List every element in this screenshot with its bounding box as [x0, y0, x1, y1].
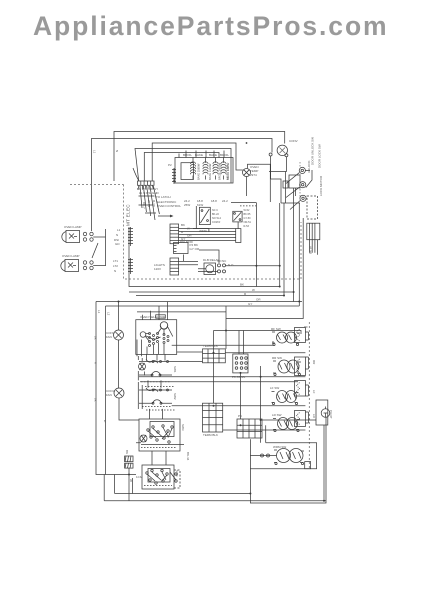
dashed stub: [240, 205, 256, 207]
DLB relay: [204, 263, 216, 275]
svg-text:BROIL: BROIL: [183, 153, 192, 157]
svg-text:L1: L1: [117, 228, 121, 232]
watermark title: [33, 11, 389, 42]
wire top bus L5: [144, 153, 219, 182]
door interlock switch B: [233, 211, 242, 222]
svg-text:FAN: FAN: [106, 335, 112, 339]
wire surface feeds 4: [140, 381, 298, 383]
wire mid bus 1: [129, 227, 280, 287]
svg-text:LF SW: LF SW: [270, 386, 279, 390]
wire top bus L1: [114, 132, 285, 182]
svg-text:GD: GD: [115, 242, 120, 246]
fan terminal left: [269, 153, 272, 156]
relay contact b: [223, 264, 226, 267]
convection fan motor: [277, 145, 287, 155]
svg-text:SW2: SW2: [173, 393, 177, 400]
svg-text:BROIL 1320W: BROIL 1320W: [226, 162, 230, 180]
svg-text:LT2: LT2: [113, 264, 118, 268]
harness bundle texture: [140, 186, 159, 220]
svg-text:OVEN LAMP: OVEN LAMP: [64, 225, 82, 229]
wire J1 pin1: [179, 228, 236, 230]
svg-text:W: W: [187, 227, 190, 231]
svg-text:NC C: NC C: [212, 209, 218, 212]
wire surface feeds 5: [172, 405, 306, 407]
wire J4 pin1: [179, 260, 198, 262]
harness stack: [172, 168, 176, 184]
svg-text:P2: P2: [168, 163, 172, 167]
svg-text:N.O.: N.O.: [228, 263, 234, 267]
svg-text:BROIL: BROIL: [220, 153, 229, 157]
svg-text:L1: L1: [93, 150, 97, 154]
wire sensor down: [246, 177, 248, 197]
svg-text:NC: NC: [222, 259, 227, 263]
svg-text:GY-50: GY-50: [244, 217, 252, 220]
svg-text:LT1: LT1: [113, 259, 118, 263]
wire left rail 1: [96, 302, 136, 475]
wire mid drop H: [225, 306, 227, 349]
selector top connector: [156, 315, 166, 318]
wire mid drop F: [240, 373, 242, 419]
wire intlk B drop: [237, 222, 239, 229]
broil motor: [114, 388, 124, 398]
wire surface feeds 2: [139, 376, 305, 378]
svg-text:BK-7: BK-7: [142, 202, 146, 209]
svg-text:GY: GY: [248, 302, 252, 306]
wire door feed2: [285, 172, 287, 204]
wire bottom rail 1: [115, 493, 251, 495]
wire intlk stub: [195, 206, 197, 229]
selector risers: [147, 354, 166, 360]
svg-text:SW3: SW3: [181, 424, 185, 431]
wire J1 pin4: [179, 237, 236, 239]
wire surface top loop: [214, 331, 302, 335]
svg-text:BK: BK: [181, 223, 185, 227]
wire mid bus 2: [129, 291, 294, 293]
switch bank 4: [142, 465, 174, 489]
bake element coil 2: [203, 158, 208, 180]
svg-text:PILOT: PILOT: [329, 410, 333, 419]
wire vertical drop B: [279, 203, 281, 287]
svg-text:BROIL 3400W: BROIL 3400W: [218, 162, 222, 180]
svg-text:BK: BK: [240, 283, 244, 287]
door switch body: [289, 175, 300, 188]
svg-text:BK-55: BK-55: [244, 213, 252, 216]
warmer pilot lamp: [321, 409, 330, 418]
svg-text:W: W: [103, 420, 107, 423]
svg-text:OR-51: OR-51: [244, 221, 252, 224]
relay contact d: [223, 270, 226, 273]
dsi wire: [183, 255, 185, 262]
svg-text:RF SW: RF SW: [271, 327, 281, 331]
door unlock switch contact 2: [300, 182, 306, 188]
broil element box: [175, 158, 233, 184]
element feed stubs: [179, 151, 224, 158]
wire bottom rail 2: [104, 500, 326, 502]
svg-text:P4: P4: [238, 414, 242, 418]
svg-text:BK: BK: [94, 336, 98, 340]
relay contact a: [218, 264, 221, 267]
svg-text:N: N: [115, 150, 119, 152]
wire bottom right box: [250, 417, 326, 503]
broil element coil 4: [221, 158, 226, 180]
s5 terminals: [261, 454, 264, 457]
svg-text:WRM SW: WRM SW: [273, 445, 286, 449]
wire vertical drop C: [283, 203, 285, 296]
svg-text:N: N: [116, 233, 118, 237]
surface switch 1: [272, 332, 300, 346]
wire light1 to board: [93, 236, 105, 238]
svg-text:UNLOCK: UNLOCK: [307, 160, 311, 173]
svg-text:BAKE: BAKE: [195, 153, 203, 157]
wire conn a drop: [128, 468, 130, 501]
svg-text:OVEN CONTROL: OVEN CONTROL: [157, 204, 181, 208]
svg-text:120V: 120V: [154, 267, 161, 271]
wire top bus L3: [152, 143, 243, 181]
svg-text:SW4: SW4: [175, 470, 179, 477]
wire relay feed: [198, 269, 218, 272]
svg-text:LR SW: LR SW: [272, 413, 282, 417]
wire latch leads: [310, 240, 318, 255]
selector feeds top: [143, 302, 168, 320]
wire pilot drop: [323, 425, 325, 501]
label intlk A codes: [199, 209, 222, 233]
oven light 2 terminals: [83, 261, 93, 270]
svg-text:N: N: [114, 269, 116, 273]
oven temp sensor: [243, 169, 251, 177]
wire surface feeds 8: [262, 419, 316, 421]
control dashed boundary: [70, 185, 301, 280]
wire selector feed top: [137, 311, 226, 313]
door unlock switch contact 3: [300, 195, 306, 201]
bank2 to bank3 risers: [150, 409, 163, 419]
wire left rail 2: [105, 306, 107, 475]
svg-text:R: R: [94, 362, 98, 364]
wire door base: [281, 202, 300, 204]
wire mid drop I: [260, 366, 262, 443]
svg-text:24.2: 24.2: [222, 199, 228, 203]
svg-text:1CM: 1CM: [136, 475, 143, 479]
svg-text:LR: LR: [312, 414, 316, 419]
wire J1 pin3: [179, 234, 236, 236]
svg-text:P3 CONN: P3 CONN: [232, 375, 245, 379]
lower connector a: [125, 456, 133, 468]
svg-text:OR: OR: [187, 234, 192, 238]
surface element 3: [295, 381, 306, 397]
wire top bus L2: [92, 139, 273, 232]
surface switch 5: [274, 449, 304, 465]
wire bottom riser b: [114, 475, 116, 494]
door unlock switch contact 1: [299, 167, 305, 173]
bundle ties: [139, 196, 157, 213]
wire surface feeds 7: [250, 443, 316, 469]
svg-text:2974: 2974: [250, 173, 257, 177]
door switch wiper 2: [286, 187, 300, 198]
svg-text:RR SW: RR SW: [272, 356, 282, 360]
fan terminal right: [285, 154, 288, 157]
element box inner edge: [230, 158, 232, 184]
surface switch 4: [273, 418, 300, 432]
wire vertical drop D: [293, 188, 295, 302]
wire vertical drop A: [255, 203, 257, 287]
svg-text:W: W: [252, 288, 255, 292]
to-latch arrow: [158, 215, 173, 217]
warmer element: [305, 462, 311, 469]
board pin header J3: [128, 258, 133, 274]
door switch wiper 1: [286, 173, 299, 184]
wire J1 pin5: [179, 240, 236, 242]
wire P1 curve: [133, 168, 139, 181]
svg-text:BK: BK: [94, 398, 98, 402]
broil element coil 3: [213, 158, 218, 180]
wire vertical drop E: [298, 203, 300, 306]
wire conn a drop2: [131, 478, 133, 494]
svg-text:GY OR: GY OR: [190, 247, 200, 251]
surface element 4: [295, 411, 306, 427]
dashed rail right: [308, 322, 310, 470]
surface switch 2: [273, 360, 301, 376]
wire fan down right: [269, 157, 286, 172]
wire selector to gridA: [177, 351, 203, 353]
wire gridD to s5: [265, 425, 267, 442]
svg-text:W-12: W-12: [147, 200, 151, 207]
fan blades: [280, 148, 286, 154]
svg-text:LF: LF: [312, 390, 316, 394]
wire motor1 down: [118, 340, 120, 388]
wire mid bus 5: [106, 305, 300, 307]
connector J4 block: [170, 258, 179, 275]
oven selector switch box: [136, 320, 177, 355]
svg-text:TO LATCH: TO LATCH: [156, 195, 171, 199]
svg-text:W-52: W-52: [244, 209, 251, 212]
bake element coil 1: [190, 158, 195, 180]
wire door diagonal: [306, 170, 312, 188]
switch bank 2: [138, 382, 175, 410]
svg-text:TERM BLK: TERM BLK: [203, 433, 218, 437]
svg-text:TERM BLK: TERM BLK: [203, 344, 218, 348]
svg-text:18.8: 18.8: [211, 199, 217, 203]
svg-text:R-30: R-30: [152, 200, 156, 207]
wire mid drop G: [213, 331, 215, 349]
svg-text:SW1: SW1: [173, 366, 177, 373]
terminal grid B: [233, 354, 248, 373]
sensor box 2974: [283, 181, 288, 188]
wire light2 to board: [93, 265, 105, 267]
svg-text:FAN: FAN: [106, 393, 112, 397]
terminal grid A: [203, 349, 226, 363]
wire surface feeds 6: [223, 429, 306, 431]
wire sensor top link: [248, 164, 271, 202]
wire mid bus 3: [136, 295, 284, 297]
element inner box: [181, 163, 193, 180]
wire surface feeds 1: [225, 352, 305, 354]
svg-text:61W: 61W: [197, 203, 203, 207]
wire fan down left: [270, 156, 272, 179]
svg-text:RF: RF: [304, 325, 308, 329]
aux box: [236, 229, 241, 243]
wire intlk base: [193, 229, 209, 232]
wire J1 pin2: [179, 231, 236, 233]
svg-text:BAKE 2585W: BAKE 2585W: [197, 163, 201, 180]
svg-text:W: W: [129, 479, 133, 482]
wire bottom riser a: [103, 475, 105, 501]
wire mid drop G2: [213, 363, 215, 403]
svg-text:L1: L1: [97, 310, 101, 314]
switch bank 3: [136, 419, 184, 451]
oven light 2: [61, 260, 79, 272]
selector contacts: [137, 322, 173, 357]
terminal grid D: [237, 419, 262, 438]
board pin header J2: [128, 227, 133, 246]
wire sensor bus: [231, 202, 256, 204]
wire circle1 stub: [305, 169, 310, 171]
bake motor: [114, 330, 124, 340]
terminal grid C: [203, 403, 223, 432]
wire light risers: [105, 229, 107, 266]
svg-text:GY: GY: [181, 237, 185, 241]
oven light 1: [62, 231, 80, 243]
svg-text:BAKE 1330W: BAKE 1330W: [208, 163, 212, 180]
door switch wiper 3: [290, 201, 300, 210]
cluster E tangle: [170, 470, 180, 488]
svg-text:25W: 25W: [184, 203, 190, 207]
door interlock switch A: [199, 207, 210, 224]
main board connector P1: [138, 181, 155, 189]
door lock solenoid box: [307, 196, 318, 219]
relay contact c: [218, 270, 221, 273]
oven light 1 terminals: [83, 232, 93, 241]
svg-text:MT ELEC: MT ELEC: [126, 204, 131, 226]
wire grid b feeds: [239, 331, 244, 355]
wire mid bus 4: [96, 301, 302, 303]
warmer pilot box: [316, 400, 328, 425]
svg-text:BAKE: BAKE: [209, 153, 217, 157]
bank1 to bank2 risers: [148, 380, 161, 387]
bank3 to bank4 risers: [152, 451, 166, 465]
dsi module box: [174, 243, 189, 254]
wire s5 feed: [250, 455, 276, 457]
wire top bus L4: [135, 149, 231, 182]
surface switch 3: [272, 391, 299, 405]
switch bank 1: [138, 356, 202, 386]
wire J4 pin2: [179, 264, 198, 266]
wire door link: [295, 188, 297, 196]
svg-text:BK W: BK W: [309, 246, 313, 254]
surface element 1: [295, 328, 306, 343]
svg-text:COM R: COM R: [212, 221, 221, 224]
wire door feed: [271, 179, 281, 203]
svg-text:DOOR UNLOCK SW: DOOR UNLOCK SW: [311, 137, 315, 165]
svg-text:RR: RR: [312, 360, 316, 365]
svg-text:BK-44: BK-44: [186, 452, 190, 461]
svg-text:OVEN SELECTOR: OVEN SELECTOR: [140, 315, 166, 319]
svg-text:OVEN LAMP: OVEN LAMP: [62, 254, 80, 258]
connector J1 block: [170, 224, 179, 244]
wire relay to bus: [226, 265, 280, 267]
wire surface feeds 3: [172, 341, 273, 345]
spark wire: [199, 250, 219, 263]
svg-text:R-53: R-53: [244, 225, 250, 228]
svg-text:L2: L2: [107, 312, 111, 316]
svg-text:BK: BK: [125, 450, 129, 454]
svg-text:DOOR LOCK SW: DOOR LOCK SW: [318, 144, 322, 168]
wire motor1 feed: [118, 302, 120, 331]
wire motor2 down: [119, 398, 139, 420]
svg-text:BK-22: BK-22: [212, 213, 220, 216]
svg-text:R: R: [181, 230, 184, 234]
latch solenoid connector: [307, 223, 320, 240]
door lock dashed link: [299, 162, 301, 201]
label block door codes: [244, 209, 252, 228]
surface element 2: [295, 357, 306, 376]
svg-text:NO W-2: NO W-2: [212, 217, 222, 220]
wire light diag: [92, 243, 98, 258]
svg-text:CONV: CONV: [289, 139, 298, 143]
svg-text:LOCK MOTOR: LOCK MOTOR: [319, 175, 323, 196]
svg-text:OR: OR: [256, 298, 261, 302]
